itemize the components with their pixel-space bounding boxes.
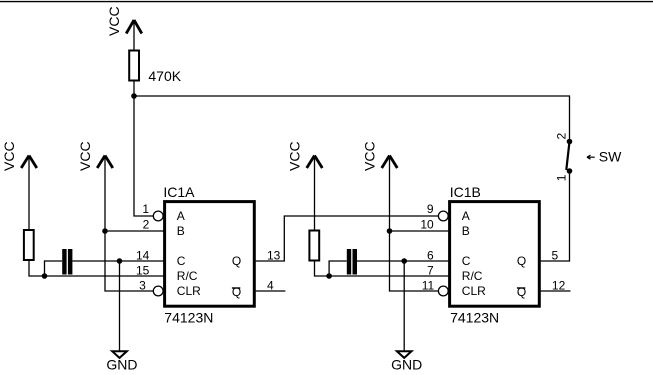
pin 1 inversion circle (A) — [153, 211, 163, 221]
wire VCC to R3 top — [314, 156, 316, 231]
junction VCC to B pin net — [102, 228, 108, 234]
wire VCC down to IC1A pin 3 (CLR) — [105, 156, 153, 292]
op IC1A box — [165, 202, 255, 307]
wire stub IC1B pin 12 — [541, 290, 571, 292]
resistor R1 470K — [129, 51, 139, 81]
svg-text:4: 4 — [267, 278, 274, 292]
svg-text:9: 9 — [427, 202, 434, 216]
junction C2 to R/C net — [326, 273, 332, 279]
wire junction to IC1A pin 2 — [105, 230, 164, 232]
svg-text:Q: Q — [517, 254, 526, 268]
svg-text:VCC: VCC — [1, 141, 17, 171]
power symbol VCC (far left, P2) — [21, 156, 37, 169]
svg-text:Q: Q — [232, 254, 241, 268]
wire IC1A Q (pin 13) to IC1B A (pin 9) — [256, 216, 439, 261]
svg-text:GND: GND — [106, 357, 137, 373]
svg-text:CLR: CLR — [462, 284, 486, 298]
capacitor C2 — [347, 249, 357, 275]
wire C2 left plate to junction — [329, 261, 347, 276]
switch SW blade — [566, 142, 569, 171]
svg-text:VCC: VCC — [106, 6, 122, 36]
wire R1 bottom to junction — [133, 81, 135, 97]
resistor R3 (right stage) — [309, 231, 319, 261]
svg-text:3: 3 — [139, 278, 146, 292]
pin 3 inversion circle (CLR) — [153, 286, 163, 296]
svg-text:14: 14 — [136, 249, 150, 263]
wire C1 right plate to IC1A pin 14 — [72, 260, 163, 262]
svg-text:1: 1 — [142, 202, 149, 216]
wire VCC to R2 top — [28, 156, 30, 231]
power symbol VCC (P3, above IC1A) — [97, 156, 113, 169]
svg-text:6: 6 — [427, 249, 434, 263]
junction C-net to GND (right) — [401, 258, 407, 264]
junction VCC to B pin net (IC1B) — [387, 228, 393, 234]
wire IC1B Q (pin 5) to switch — [541, 171, 570, 261]
wire junction down to GND — [119, 261, 121, 350]
svg-text:A: A — [462, 209, 470, 223]
wire VCC top to R1 — [133, 20, 135, 51]
wire junction to IC1B pin 10 — [390, 230, 449, 232]
svg-text:15: 15 — [136, 264, 150, 278]
wire VCC down to IC1B pin 11 (CLR) — [390, 156, 439, 292]
junction C-net to GND — [117, 258, 123, 264]
overline of Qbar (IC1B) — [517, 287, 525, 289]
wire C2 right plate to IC1B pin 6 — [357, 260, 449, 262]
power symbol VCC (P5, above IC1B) — [382, 156, 398, 169]
svg-text:7: 7 — [427, 264, 434, 278]
svg-text:IC1A: IC1A — [163, 184, 195, 200]
op IC1B box — [450, 202, 540, 307]
svg-text:A: A — [177, 209, 185, 223]
resistor R2 (left stage) — [24, 230, 34, 260]
capacitor C1 — [62, 249, 72, 275]
ground symbol GND (right) — [397, 351, 412, 358]
power symbol VCC (P4, left of stage 2) — [307, 156, 323, 169]
svg-text:VCC: VCC — [77, 141, 93, 171]
ground symbol GND (left) — [112, 351, 127, 358]
svg-text:2: 2 — [143, 218, 150, 232]
junction at R1/SW net — [131, 93, 137, 99]
wire R3 bottom to IC1B pin 7 — [315, 261, 449, 277]
svg-text:SW: SW — [599, 149, 622, 165]
wire junction to switch (top horizontal) — [134, 96, 570, 142]
svg-text:74123N: 74123N — [450, 309, 499, 325]
svg-text:R/C: R/C — [462, 269, 483, 283]
svg-text:1: 1 — [555, 174, 569, 181]
svg-text:IC1B: IC1B — [450, 184, 481, 200]
junction C1 to R/C net — [42, 273, 48, 279]
svg-text:2: 2 — [555, 133, 569, 140]
svg-text:VCC: VCC — [287, 141, 303, 171]
svg-text:GND: GND — [391, 357, 422, 373]
SW pointer arrow — [587, 155, 595, 159]
svg-text:470K: 470K — [148, 68, 181, 84]
svg-text:74123N: 74123N — [164, 309, 213, 325]
svg-text:10: 10 — [420, 218, 434, 232]
svg-text:CLR: CLR — [177, 284, 201, 298]
switch terminal 2 dot — [567, 139, 573, 145]
wire C1 left plate to junction — [45, 261, 63, 276]
svg-text:R/C: R/C — [177, 269, 198, 283]
svg-text:VCC: VCC — [362, 141, 378, 171]
svg-text:C: C — [462, 254, 471, 268]
svg-text:B: B — [462, 224, 470, 238]
svg-text:C: C — [177, 254, 186, 268]
wire junction down to IC1A pin 1 — [134, 96, 153, 216]
switch terminal 1 dot — [567, 168, 573, 174]
wire junction down to GND (right) — [403, 261, 405, 350]
pin 11 inversion circle (CLR) — [438, 286, 448, 296]
wire R2 bottom to IC1A pin 15 — [29, 260, 164, 276]
svg-text:12: 12 — [552, 278, 566, 292]
svg-text:11: 11 — [422, 278, 435, 292]
overline of Qbar (IC1A) — [232, 287, 240, 289]
pin 9 inversion circle (A) — [438, 211, 448, 221]
svg-text:B: B — [177, 224, 185, 238]
power symbol VCC (top, P1) — [126, 20, 142, 34]
wire stub IC1A pin 4 — [256, 290, 286, 292]
frame top border line — [0, 1, 653, 3]
